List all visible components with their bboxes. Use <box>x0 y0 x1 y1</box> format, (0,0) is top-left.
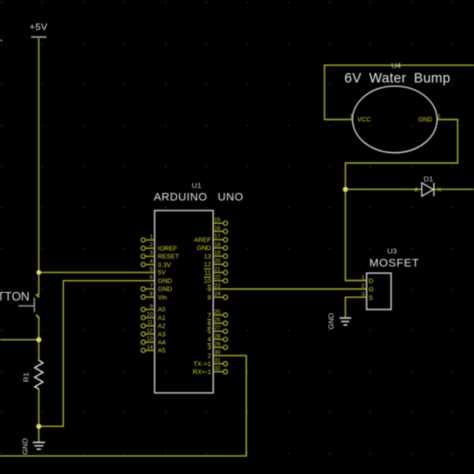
pin 26 6 (U1 right) <box>207 318 227 328</box>
svg-text:ARDUINO UNO: ARDUINO UNO <box>154 192 244 204</box>
pin 17 AREF (U1 right) <box>194 234 228 244</box>
svg-text:U4: U4 <box>391 61 401 70</box>
svg-text:3.3V: 3.3V <box>158 262 172 269</box>
svg-text:A5: A5 <box>158 348 166 355</box>
svg-text:27: 27 <box>214 326 220 332</box>
wire bottom rail from left edge up to Arduino pin 2 <box>0 356 246 456</box>
pin 31 TX-&gt;1 (U1 right) <box>193 358 227 368</box>
pin 5 5V (U1 left) <box>150 267 167 277</box>
svg-text:20: 20 <box>214 259 220 265</box>
pin 27 5 (U1 right) <box>207 326 227 336</box>
pin 13 A4 (U1 left) <box>141 337 166 347</box>
svg-text:R1: R1 <box>22 372 31 382</box>
pushbutton S1 BUTTON <box>0 290 39 318</box>
svg-text:3: 3 <box>362 292 365 298</box>
svg-text:S: S <box>369 295 374 302</box>
pin 10 A1 (U1 left) <box>141 312 166 322</box>
wire junction through resistor R1 position <box>38 340 40 361</box>
svg-text:A2: A2 <box>158 323 166 330</box>
svg-text:D1: D1 <box>424 174 434 183</box>
node junction motor GND / diode anode / MOSFET drain <box>343 187 348 192</box>
ARDUINO UNO value label <box>154 192 244 204</box>
pin 1 VCC (U4) <box>350 114 371 123</box>
svg-text:2: 2 <box>150 243 153 249</box>
svg-text:AREF: AREF <box>194 237 211 244</box>
pin 11 A2 (U1 left) <box>141 320 166 330</box>
svg-text:2: 2 <box>362 284 365 290</box>
svg-text:28: 28 <box>214 334 220 340</box>
wire Arduino GND pin left, down, to ground junction <box>39 281 155 427</box>
svg-text:GND: GND <box>327 313 336 329</box>
svg-text:23: 23 <box>214 283 220 289</box>
svg-text:GND: GND <box>158 278 173 285</box>
svg-text:13: 13 <box>204 253 212 260</box>
svg-text:K: K <box>437 188 441 194</box>
pin 6 GND (U1 left) <box>150 275 173 285</box>
svg-text:25: 25 <box>214 309 220 315</box>
wire resistor bottom to ground junction <box>38 389 40 442</box>
svg-text:GND: GND <box>158 286 173 293</box>
pin 22 10 (U1 right) <box>204 275 228 285</box>
pin 21 11 (U1 right) <box>204 267 228 277</box>
svg-text:13: 13 <box>147 337 153 343</box>
svg-text:8: 8 <box>150 292 153 298</box>
svg-text:5: 5 <box>150 267 153 273</box>
svg-text:12: 12 <box>204 262 212 269</box>
svg-text:A3: A3 <box>158 331 166 338</box>
svg-text:6V Water Bump: 6V Water Bump <box>344 70 450 85</box>
6V Water Bump value label <box>344 70 450 85</box>
gray stub at left edge (cut-off symbol) <box>0 39 2 41</box>
pin 7 GND (U1 left) <box>141 283 172 293</box>
svg-text:IOREF: IOREF <box>158 246 178 253</box>
pin 23 9 (U1 right) <box>207 283 220 293</box>
svg-text:9: 9 <box>150 304 153 310</box>
MOSFET value label <box>369 257 419 269</box>
wire button bottom to lower junction <box>38 317 40 340</box>
pin 18 GND (U1 right) <box>197 242 228 252</box>
wire lower junction to left edge <box>0 339 39 341</box>
svg-text:A4: A4 <box>158 340 166 347</box>
svg-text:U3: U3 <box>387 246 397 255</box>
svg-text:A0: A0 <box>158 307 166 314</box>
pin 25 7 (U1 right) <box>207 309 227 319</box>
U3 reference label <box>387 246 397 255</box>
svg-text:11: 11 <box>204 270 211 277</box>
svg-text:D: D <box>369 278 374 285</box>
svg-text:7: 7 <box>150 283 153 289</box>
pin 12 A3 (U1 left) <box>141 328 166 338</box>
svg-text:+5V: +5V <box>30 21 48 32</box>
svg-text:5: 5 <box>207 329 211 336</box>
svg-text:24: 24 <box>214 292 220 298</box>
svg-text:RESET: RESET <box>158 254 179 261</box>
svg-text:19: 19 <box>214 251 220 257</box>
pin 3 RESET (U1 left) <box>141 251 179 261</box>
U1 reference label <box>192 181 202 190</box>
ground (below R1) <box>20 438 45 454</box>
pin 1 D (U3 drain) <box>362 275 374 285</box>
svg-text:3: 3 <box>150 251 153 257</box>
svg-text:17: 17 <box>214 234 220 240</box>
pin 20 12 (U1 right) <box>204 259 228 269</box>
svg-text:2: 2 <box>438 114 441 120</box>
svg-text:GND: GND <box>418 117 433 124</box>
pin 3 S (U3 source) <box>362 292 374 302</box>
svg-text:1: 1 <box>150 234 153 240</box>
pin 24 8 (U1 right) <box>207 292 227 302</box>
pin K cathode (D1) <box>437 188 441 194</box>
wire motor GND down to diode junction <box>345 120 457 190</box>
resistor R1 <box>22 360 43 389</box>
pin A anode (D1) <box>414 188 418 194</box>
pin 32 RX&lt;-1 (U1 right) <box>193 366 228 376</box>
svg-text:3: 3 <box>207 345 211 352</box>
svg-text:Vin: Vin <box>158 294 168 301</box>
svg-text:11: 11 <box>147 320 153 326</box>
svg-text:21: 21 <box>214 267 220 273</box>
svg-text:4: 4 <box>150 259 153 265</box>
pin 16 (nc) (U1 right) <box>213 226 227 234</box>
svg-text:18: 18 <box>214 242 220 248</box>
pin 15 (nc) (U1 right) <box>213 218 227 226</box>
svg-text:1: 1 <box>350 114 353 120</box>
svg-text:29: 29 <box>214 342 220 348</box>
pin 1 (nc) (U1 left) <box>141 234 155 242</box>
pin 19 13 (U1 right) <box>204 251 228 261</box>
svg-text:10: 10 <box>147 312 153 318</box>
pin 2 IOREF (U1 left) <box>141 243 177 253</box>
motor U4 6V Water Bump <box>353 86 438 153</box>
wire junction down to MOSFET drain <box>345 189 366 280</box>
svg-text:32: 32 <box>214 366 220 372</box>
svg-text:30: 30 <box>214 350 220 356</box>
svg-text:31: 31 <box>214 358 220 364</box>
pin 4 3.3V (U1 left) <box>141 259 172 269</box>
svg-text:22: 22 <box>214 275 220 281</box>
ground (below U3 source) <box>327 313 352 329</box>
pin 28 4 (U1 right) <box>207 334 227 344</box>
svg-text:U1: U1 <box>192 181 202 190</box>
svg-text:7: 7 <box>207 312 211 319</box>
svg-text:26: 26 <box>214 318 220 324</box>
svg-text:RX<-1: RX<-1 <box>193 369 212 376</box>
svg-text:GND: GND <box>197 245 212 252</box>
wire motor VCC loop: left side and top to right edge <box>325 65 474 119</box>
node junction button bottom / R1 / left wire <box>36 337 41 342</box>
svg-text:9: 9 <box>207 286 211 293</box>
svg-text:MOSFET: MOSFET <box>369 257 419 269</box>
diode D1 <box>422 183 434 196</box>
svg-text:BUTTON: BUTTON <box>0 290 30 304</box>
op-amp U1 Arduino UNO box <box>155 211 214 393</box>
svg-text:14: 14 <box>147 345 153 351</box>
svg-text:6: 6 <box>207 321 211 328</box>
wire +5V rail down to button top <box>38 38 40 295</box>
pin 2 G (U3 gate) <box>362 284 374 294</box>
svg-text:VCC: VCC <box>357 117 371 124</box>
svg-text:2: 2 <box>207 353 211 360</box>
node junction +5V / button / Arduino 5V <box>36 270 41 275</box>
wire Arduino pin 9 to MOSFET gate <box>213 288 366 290</box>
svg-text:G: G <box>369 287 374 294</box>
power +5V symbol <box>30 21 48 37</box>
wire 5V junction to Arduino 5V pin <box>39 271 155 273</box>
U4 reference label <box>391 61 401 70</box>
svg-text:TX->1: TX->1 <box>193 361 211 368</box>
pin 2 GND (U4) <box>418 114 440 123</box>
svg-text:12: 12 <box>147 328 153 334</box>
svg-text:10: 10 <box>204 278 212 285</box>
svg-text:15: 15 <box>214 218 220 224</box>
node junction R1 bottom / GND / Arduino GND <box>36 424 41 429</box>
svg-text:5V: 5V <box>158 270 167 277</box>
svg-text:8: 8 <box>207 295 211 302</box>
wire MOSFET source to ground <box>345 297 366 317</box>
pin 8 Vin (U1 left) <box>141 292 167 302</box>
pin 29 3 (U1 right) <box>207 342 227 352</box>
wire diode anode line junction to right edge <box>345 188 474 190</box>
pin 9 A0 (U1 left) <box>141 304 166 314</box>
svg-text:4: 4 <box>207 337 211 344</box>
svg-text:GND: GND <box>20 438 29 454</box>
svg-text:1: 1 <box>362 275 365 281</box>
svg-text:A: A <box>414 188 418 194</box>
svg-text:6: 6 <box>150 275 153 281</box>
pin 14 A5 (U1 left) <box>141 345 166 355</box>
svg-text:A1: A1 <box>158 315 166 322</box>
pin 30 2 (U1 right) <box>207 350 220 360</box>
svg-text:16: 16 <box>214 226 220 232</box>
transistor U3 MOSFET <box>367 273 392 309</box>
D1 reference label <box>424 174 434 183</box>
